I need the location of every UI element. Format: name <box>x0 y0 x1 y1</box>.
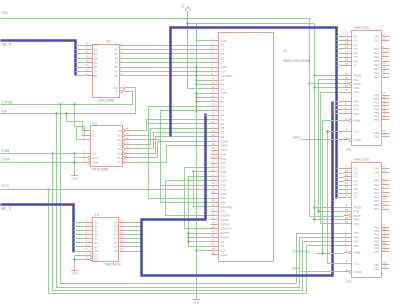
wire D0 IC2 to X1 <box>125 45 211 47</box>
U$2 pin VDD stub <box>344 219 352 221</box>
U$1 pin D7 stub <box>344 65 352 67</box>
U$2 pin D7 stub <box>344 197 352 199</box>
svg-text:D7: D7 <box>354 196 358 200</box>
wire IC3 Y8 to bus <box>128 251 142 253</box>
U$1 pin P54 stub <box>382 109 390 111</box>
IC3 pin Y7 stub <box>119 246 128 248</box>
svg-text:46: 46 <box>211 234 215 238</box>
svg-text:VDD: VDD <box>220 91 227 95</box>
wire U1 RESB stub <box>315 75 344 77</box>
ground GND3 <box>193 296 200 305</box>
X1 pin 48 stub <box>211 246 219 248</box>
svg-text:G2: G2 <box>94 257 98 261</box>
U$2 pin D4 stub <box>344 185 352 187</box>
U$1 pin CB2 stub <box>382 136 390 138</box>
X1 pin 49 stub <box>211 250 219 252</box>
U$2 pin P55 stub <box>382 244 390 246</box>
bus tap A0 to IC3 <box>74 222 85 224</box>
wire IC3 Y4 to bus <box>128 234 142 236</box>
junction IC3 G2 <box>73 258 75 260</box>
X1 pin 44 stub <box>211 228 219 230</box>
IC3 pin Y2 stub <box>119 226 128 228</box>
svg-text:D14: D14 <box>220 166 226 170</box>
IC1 pin Y7 stub <box>125 162 132 164</box>
svg-text:D8: D8 <box>220 126 224 130</box>
U$2 pin P54 stub <box>382 241 390 243</box>
bus tap A7 to IC3 <box>74 251 85 253</box>
svg-text:PA7: PA7 <box>374 207 380 211</box>
svg-text:24: 24 <box>211 138 215 142</box>
svg-text:21: 21 <box>211 124 215 128</box>
IC2 74AC245N body <box>93 45 120 98</box>
svg-text:A0: A0 <box>220 122 224 126</box>
U$2 pin PA2 stub <box>382 188 390 190</box>
wire RWB chain U1-U2 <box>323 121 344 254</box>
junction chain pin 47 <box>187 240 189 242</box>
U$2 pin PA6 stub <box>382 205 390 207</box>
bus tap U1 D4 <box>337 53 344 55</box>
svg-text:39: 39 <box>382 169 386 173</box>
svg-text:G: G <box>116 90 119 94</box>
bus tap A2 to IC3 <box>74 230 85 232</box>
IC3 pin G1 stub <box>85 255 91 257</box>
junction GND ladder pin 9 <box>195 74 197 76</box>
U$1 pin P57 stub <box>382 119 390 121</box>
IC1 pin G1 stub <box>82 153 91 155</box>
X1 pin 31 stub <box>211 171 219 173</box>
bus tap U2 D4 <box>337 185 344 187</box>
wire VAA1 to U1 CS2B <box>301 139 344 141</box>
svg-text:15: 15 <box>125 127 129 131</box>
IC1 pin Y2 stub <box>125 139 132 141</box>
X1 pin 47 stub <box>211 241 219 243</box>
X1 pin 22 stub <box>211 132 219 134</box>
X1 pin 37 stub <box>211 198 219 200</box>
svg-text:24: 24 <box>345 260 349 264</box>
U$2 pin PA0 stub <box>382 180 390 182</box>
wire Y6 to X1 pin 24 <box>132 142 211 158</box>
svg-text:D6: D6 <box>220 52 224 56</box>
svg-text:34: 34 <box>345 62 349 66</box>
svg-text:16: 16 <box>85 50 89 54</box>
svg-text:40: 40 <box>211 207 215 211</box>
IC1 pin Y5 stub <box>125 153 132 155</box>
U$2 pin P52 stub <box>382 234 390 236</box>
IC3 pin A4 stub <box>85 234 93 236</box>
IC1 pin C stub <box>82 139 91 141</box>
U$2 pin RESB stub <box>344 207 352 209</box>
wire /IICS drop to U2 RS3 <box>49 190 344 294</box>
junction GND ladder pin 8 <box>195 70 197 72</box>
IC3 pin A1 stub <box>85 222 93 224</box>
svg-text:19: 19 <box>122 88 126 92</box>
wire IC3 Y1 to bus <box>128 222 142 224</box>
svg-text:23: 23 <box>345 268 349 272</box>
junction U2 VDD <box>313 218 315 220</box>
wire /ENB drop to U2 RS2 <box>53 154 344 291</box>
svg-text:/DMACK: /DMACK <box>220 227 232 231</box>
svg-text:74AC245N: 74AC245N <box>98 99 115 103</box>
X1 pin 20 stub <box>211 123 219 125</box>
svg-text:RS3: RS3 <box>354 112 360 116</box>
svg-text:16: 16 <box>211 103 215 107</box>
wire GND ladder to X1 pin 49 <box>197 250 211 252</box>
IC1 pin Y0 stub <box>125 130 132 132</box>
svg-text:5: 5 <box>211 55 213 59</box>
U$2 pin D2 stub <box>344 176 352 178</box>
svg-text:A18: A18 <box>220 183 226 187</box>
U$2 pin VSS stub <box>344 223 352 225</box>
svg-text:B8: B8 <box>94 74 98 78</box>
IC3 pin A3 stub <box>85 230 93 232</box>
svg-text:D17: D17 <box>220 196 226 200</box>
svg-text:17: 17 <box>382 248 386 252</box>
junction chain pin 45 <box>187 232 189 234</box>
svg-text:G2A: G2A <box>92 156 98 160</box>
X1 pin 9 stub <box>211 75 219 77</box>
IC1 pin Y0 bubble <box>122 130 125 133</box>
svg-text:13: 13 <box>85 63 89 67</box>
wire GND rail to X1 pin 1 <box>197 40 211 42</box>
svg-text:34: 34 <box>345 194 349 198</box>
bus tap X1 pin 18 <box>206 115 211 117</box>
U$1 pin PA3 stub <box>382 61 390 63</box>
U$2 pin P50 stub <box>382 227 390 229</box>
U$1 pin RS0 stub <box>344 101 352 103</box>
wire GND ladder to X1 pin 17 <box>197 110 211 112</box>
bus tap U1 D7 <box>337 65 344 67</box>
svg-text:GND: GND <box>72 271 78 275</box>
svg-text:D18: D18 <box>220 157 226 161</box>
svg-text:G1: G1 <box>92 151 96 155</box>
X1 pin 18 stub <box>211 115 219 117</box>
wire chain to X1 pin 47 <box>189 241 211 243</box>
X1 pin 11 stub <box>211 84 219 86</box>
svg-text:/IAST: /IAST <box>220 179 228 183</box>
X1 pin 45 stub <box>211 233 219 235</box>
IC1 pin Y6 bubble <box>122 157 125 160</box>
X1 pin 26 stub <box>211 150 219 152</box>
X1 pin 16 stub <box>211 106 219 108</box>
wire GND ladder to X1 pin 7 <box>197 67 211 69</box>
wire IC3 G1 to GND <box>75 256 85 267</box>
U$1 pin PA2 stub <box>382 56 390 58</box>
U$1 pin CS2B stub <box>344 139 350 141</box>
svg-text:A7: A7 <box>114 69 118 73</box>
wire X1 pin30 to pin44 loop <box>185 168 211 229</box>
IC1 pin Y2 bubble <box>122 139 125 142</box>
svg-text:A: A <box>92 129 94 133</box>
X1 pin 35 stub <box>211 189 219 191</box>
svg-text:B6: B6 <box>94 65 98 69</box>
svg-text:41: 41 <box>382 74 386 78</box>
svg-text:D1B: D1B <box>220 170 226 174</box>
wire Y0 to X1 pin 19 <box>132 120 211 131</box>
svg-text:A6: A6 <box>220 96 224 100</box>
bus tap D5 to IC2 <box>76 67 85 69</box>
U$2 pin D5 stub <box>344 189 352 191</box>
svg-text:U$1: U$1 <box>346 148 352 152</box>
svg-text:B2: B2 <box>94 48 98 52</box>
svg-text:Y7: Y7 <box>117 160 121 164</box>
svg-text:GND: GND <box>194 300 200 304</box>
bus tap U2 D5 <box>337 189 344 191</box>
svg-text:10: 10 <box>211 76 215 80</box>
junction GND ladder pin 11 <box>195 83 197 85</box>
X1 pin 8 stub <box>211 71 219 73</box>
wire G2A to GND drop <box>75 157 82 159</box>
U$2 pin PA3 stub <box>382 192 390 194</box>
IC2 pin A5 stub <box>120 62 125 64</box>
svg-text:28: 28 <box>211 155 215 159</box>
bus A[0..7] left segment <box>1 205 74 253</box>
svg-text:A5: A5 <box>114 61 118 65</box>
wire VCC to X1 VDD pin 12 <box>188 11 211 89</box>
svg-text:IORDY: IORDY <box>220 222 230 226</box>
X1 pin 50 stub <box>211 254 219 256</box>
svg-text:IM69C2255: IM69C2255 <box>353 26 369 30</box>
bus tap A6 to IC3 <box>74 246 85 248</box>
bus A/P loop segment <box>142 102 333 276</box>
U$2 pin CS1 stub <box>344 263 352 265</box>
U$1 pin P56 stub <box>382 116 390 118</box>
svg-text:6854 2001SOIB: 6854 2001SOIB <box>283 59 310 63</box>
wire GND ladder to X1 pin 13 <box>197 93 211 95</box>
X1 pin 38 stub <box>211 202 219 204</box>
svg-text:23: 23 <box>345 136 349 140</box>
wire GND ladder to X1 pin 11 <box>197 84 211 86</box>
svg-text:P57: P57 <box>374 118 380 122</box>
svg-text:Y1: Y1 <box>117 133 121 137</box>
X1 pin 40 stub <box>211 211 219 213</box>
IC3 pin Y8 stub <box>119 251 128 253</box>
IC2 pin A8 stub <box>120 75 125 77</box>
U$1 pin CS1 stub <box>344 131 352 133</box>
U$2 pin P53 stub <box>382 237 390 239</box>
svg-text:A8: A8 <box>114 74 118 78</box>
wire GND drop IC1 <box>74 154 76 172</box>
X1 pin 23 stub <box>211 136 219 138</box>
bus tap A3 to IC3 <box>74 234 85 236</box>
X1 pin 6 stub <box>211 62 219 64</box>
X1 pin 17 stub <box>211 110 219 112</box>
svg-text:B5: B5 <box>94 61 98 65</box>
bus tap U2 D1 <box>337 173 344 175</box>
X1 pin 29 stub <box>211 163 219 165</box>
junction GND ladder pin 10 <box>195 79 197 81</box>
U$1 pin CA2 stub <box>382 40 390 42</box>
vcc symbol V+ <box>185 7 191 11</box>
IC2 pin G stub <box>122 91 126 93</box>
U$1 pin RS3 stub <box>344 113 352 115</box>
svg-text:/DISK: /DISK <box>2 157 12 161</box>
X1 pin 15 stub <box>211 101 219 103</box>
U$1 pin IRQB bubble <box>349 83 352 86</box>
wire GND ladder to X1 pin 14 <box>197 97 211 99</box>
U$1 pin PA5 stub <box>382 69 390 71</box>
bus tap U1 D0 <box>337 36 344 38</box>
U$1 pin D2 stub <box>344 44 352 46</box>
IC1 pin Y3 stub <box>125 144 132 146</box>
U$1 pin RS1 stub <box>344 105 352 107</box>
U$1 pin PA4 stub <box>382 65 390 67</box>
U$1 pin P51 stub <box>382 98 390 100</box>
U$1 pin PA6 stub <box>382 73 390 75</box>
wire U1 VDD stub <box>315 87 344 89</box>
svg-text:RS3: RS3 <box>354 244 360 248</box>
svg-text:A6: A6 <box>114 65 118 69</box>
svg-text:17: 17 <box>382 116 386 120</box>
IC2 pin B7 stub <box>85 71 93 73</box>
U$1 pin PA7 stub <box>382 77 390 79</box>
wire D1 IC2 to X1 <box>125 49 211 51</box>
U$1 pin PA0 stub <box>382 48 390 50</box>
U$1 pin CB1 stub <box>382 133 390 135</box>
wire D6 IC2 to X1 <box>125 71 211 73</box>
svg-text:PA7: PA7 <box>374 75 380 79</box>
U$2 pin IRQB stub <box>344 215 350 217</box>
wire X1 pin33 to pin41 loop <box>166 181 211 216</box>
bus tap U1 RS2 <box>333 109 344 111</box>
wire X1 pin17 to pin38 loop <box>161 111 211 203</box>
IC1 pin Y4 stub <box>125 148 132 150</box>
X1 pin 21 stub <box>211 128 219 130</box>
svg-text:U$2: U$2 <box>346 280 352 284</box>
svg-text:48: 48 <box>211 242 215 246</box>
svg-text:10: 10 <box>125 150 129 154</box>
wire IC3 Y5 to bus <box>128 238 142 240</box>
bus tap D1 to IC2 <box>76 49 85 51</box>
wire A input to IC1 <box>67 114 83 131</box>
svg-text:IC2: IC2 <box>106 40 111 44</box>
U$2 pin RS2 stub <box>344 241 352 243</box>
IC2 pin B3 stub <box>85 53 93 55</box>
svg-text:CS2B: CS2B <box>354 270 362 274</box>
svg-text:D7: D7 <box>354 64 358 68</box>
U$2 pin RS0 stub <box>344 233 352 235</box>
svg-text:41: 41 <box>382 205 386 209</box>
svg-text:15: 15 <box>85 55 89 59</box>
U$1 IM69C2255 body <box>352 31 382 146</box>
U$1 pin RWB bubble <box>349 119 352 122</box>
junction on /DISK <box>73 161 75 163</box>
bus tap U1 D5 <box>337 57 344 59</box>
svg-text:19: 19 <box>382 133 386 137</box>
wire IC3 Y2 to bus <box>128 226 142 228</box>
junction U1 IRQB <box>308 82 310 84</box>
svg-text:B: B <box>92 133 94 137</box>
svg-text:Y2: Y2 <box>117 138 121 142</box>
wire IC3 G2 to GND <box>75 259 85 261</box>
svg-text:D4: D4 <box>220 48 224 52</box>
wire X1 pin31 to pin39 loop <box>194 172 211 207</box>
X1 pin 39 stub <box>211 206 219 208</box>
wire GND rail vertical <box>196 24 198 296</box>
svg-text:B7: B7 <box>94 69 98 73</box>
svg-text:27: 27 <box>211 151 215 155</box>
svg-text:D7: D7 <box>220 61 224 65</box>
wire /DISK to IC1 G2B <box>1 162 82 164</box>
X1 pin 10 stub <box>211 80 219 82</box>
svg-text:/ENB: /ENB <box>2 149 11 153</box>
svg-text:D9: D9 <box>220 135 224 139</box>
U$2 pin P56 stub <box>382 248 390 250</box>
junction U2 RESB <box>313 206 315 208</box>
wire Y4 to X1 pin 22 <box>132 133 211 149</box>
svg-text:C8: C8 <box>220 244 224 248</box>
bus tap U2 D6 <box>337 193 344 195</box>
IC1 pin Y1 bubble <box>122 134 125 137</box>
svg-text:D12: D12 <box>220 209 226 213</box>
bus tap A5 to IC3 <box>74 242 85 244</box>
svg-text:11: 11 <box>85 72 88 76</box>
bus tap U2 D7 <box>337 197 344 199</box>
junction pin31 branch <box>192 170 194 172</box>
IC3 pin A7 stub <box>85 246 93 248</box>
X1 pin 27 stub <box>211 154 219 156</box>
IC2 pin B4 stub <box>85 58 93 60</box>
svg-text:VAA2: VAA2 <box>292 266 300 270</box>
svg-text:11: 11 <box>125 145 128 149</box>
IC3 pin G1 bubble <box>90 254 93 257</box>
bus tap U1 D3 <box>337 48 344 50</box>
IC3 74AC541N body <box>93 218 119 262</box>
svg-text:41: 41 <box>211 212 215 216</box>
X1 pin 41 stub <box>211 215 219 217</box>
U$2 pin RWB bubble <box>349 251 352 254</box>
IC1 pin G2A bubble <box>88 157 91 160</box>
bus tap U1 D6 <box>337 61 344 63</box>
wire IC3 Y7 to bus <box>128 246 142 248</box>
svg-text:5: 5 <box>120 55 122 59</box>
U$2 pin D0 stub <box>344 168 352 170</box>
U$2 pin CS2B bubble <box>349 270 352 273</box>
wire Y5 to X1 pin 23 <box>132 137 211 154</box>
IC1 pin Y5 bubble <box>122 152 125 155</box>
svg-text:B3: B3 <box>94 52 98 56</box>
U$2 pin D1 stub <box>344 172 352 174</box>
U$1 pin P52 stub <box>382 102 390 104</box>
junction /IICS drop <box>47 188 49 190</box>
svg-text:12: 12 <box>125 141 129 145</box>
svg-text:7: 7 <box>120 63 122 67</box>
IC1 pin Y4 bubble <box>122 148 125 151</box>
X1 pin 13 stub <box>211 93 219 95</box>
X1 pin 19 stub <box>211 119 219 121</box>
IC2 pin B5 stub <box>85 62 93 64</box>
svg-text:/DIOW: /DIOW <box>220 214 229 218</box>
U$2 pin CB2 stub <box>382 268 390 270</box>
wire Y3 to X1 pin 21 <box>132 129 211 145</box>
svg-text:74AC541N: 74AC541N <box>104 263 121 267</box>
junction RWB chain <box>321 252 323 254</box>
wire IRQ drop to U2 IRQB <box>310 19 344 217</box>
junction GND drop on /ENB <box>73 152 75 154</box>
X1 pin 46 stub <box>211 237 219 239</box>
ground GND2 <box>71 267 78 276</box>
svg-text:G2B: G2B <box>92 160 98 164</box>
bus tap D3 to IC2 <box>76 58 85 60</box>
U$2 pin D6 stub <box>344 193 352 195</box>
svg-text:31: 31 <box>211 168 215 172</box>
wire GND ladder to X1 pin 15 <box>197 101 211 103</box>
svg-text:47: 47 <box>211 238 215 242</box>
U$2 pin PH2 stub <box>344 211 352 213</box>
svg-text:CH4: CH4 <box>220 152 226 156</box>
wire CS1 chain U1-U2 <box>328 132 344 264</box>
junction U1 VDD <box>313 86 315 88</box>
svg-text:36: 36 <box>211 190 215 194</box>
